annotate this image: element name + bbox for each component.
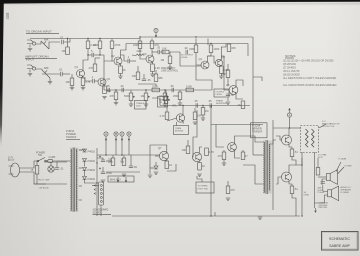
svg-text:.51: .51 [294,150,298,154]
AC plug P1 [9,163,26,177]
svg-text:NOTES:: NOTES: [285,54,296,58]
title block [322,232,359,251]
wire 16ohm col [314,152,316,208]
svg-text:100K: 100K [213,47,219,51]
plus mark C15 [99,168,101,170]
wire second rail [126,43,248,45]
wire right vertical bus [252,37,254,155]
fuse F2 vertical [35,161,39,185]
wire R1 to C1 [49,42,60,49]
wire sec tap3 [79,185,82,187]
pin arrows [94,185,96,195]
pot VOLUME 5K [160,93,170,101]
transistor Q5 [215,55,225,67]
diode D1 P4002 [83,149,96,153]
wire tb1 feed [92,185,99,187]
resistor R9 1K [119,66,126,74]
svg-text:Q2: Q2 [107,77,111,81]
capacitor C16 [129,165,138,169]
wire d1 [79,149,85,150]
junction tone 3 [164,89,165,90]
pot TREBLE 500K [124,93,135,101]
fuse F1 [46,160,55,163]
junction [87,54,88,55]
svg-text:A: A [288,113,290,117]
wire node B down [115,140,117,155]
pilot lamp L1 [48,166,54,172]
wire RB1 top [95,57,100,59]
ground pot3 [163,104,168,106]
wire Q3 out [152,51,158,53]
wire trem bus [160,105,250,107]
capacitor C10 [170,84,174,92]
wire rz3 [132,54,136,57]
resistor R31 .51 [290,149,298,157]
resistor RZ2 zigzag [312,129,315,147]
junction supply 4 [96,182,97,183]
svg-text:1M: 1M [161,58,165,62]
wire jack2 to C2 to base bus [42,73,60,75]
resistor R13 330K [189,45,198,53]
svg-text:#44 BULB: #44 BULB [39,187,50,189]
transformer T1 core [73,148,75,212]
node C [120,132,124,141]
svg-text:VR1: VR1 [150,166,156,170]
diode D4 P4002 [83,177,96,181]
resistor R1 68K (diagonal w/ arrow) [41,38,49,50]
wire pot3 top [164,90,166,93]
svg-text:100K: 100K [186,84,192,88]
node B [114,132,118,141]
wire supply bus [97,154,160,156]
svg-text:15K: 15K [231,46,236,50]
svg-text:.05: .05 [170,84,174,88]
wire bus tick [214,212,216,216]
svg-text:.01: .01 [60,167,64,171]
transformer T1 secondary winding [76,149,77,211]
wire bus to R7 [99,39,101,42]
transformer T2 secondary winding [269,144,270,190]
wire d2 [84,162,86,167]
wire [179,90,181,92]
ground pot1 [129,104,134,106]
wire r27 [123,155,125,158]
wire t2 sec taps [270,140,276,144]
svg-text:4.7K: 4.7K [85,80,91,84]
svg-text:10K: 10K [162,46,167,50]
svg-text:220K: 220K [133,43,139,47]
underline [26,33,59,35]
wire q12 coll [200,147,203,153]
svg-text:Q4: Q4 [199,57,203,61]
wire mains hot [26,161,39,168]
svg-text:1M: 1M [141,94,145,98]
ground R25 [193,122,198,124]
svg-text:470K: 470K [114,43,120,47]
wire C2 right [62,73,70,75]
resistor R17b [227,44,236,52]
resistor R16b [162,46,169,53]
svg-text:Q2: Q2 [111,54,115,58]
junction trem 2 [202,105,203,106]
capacitor C18 nonpolar [321,182,325,184]
wire sw to fuse [46,160,49,162]
ground reg [154,172,159,174]
svg-text:A: A [105,132,107,136]
wire [164,101,166,105]
resistor RB2 [103,86,107,94]
resistor R7 100K [93,41,102,49]
wire Q2b emit [104,85,106,87]
capacitor C11 [194,99,198,108]
resistor R32 .51 [290,186,298,194]
jack J2 amp/lift input [27,65,36,73]
capacitor C12 [208,99,212,108]
wire drv coll [235,136,244,144]
wire Q5 coll up [221,44,226,61]
wire R17 [227,64,229,70]
resistor R17 [222,70,230,78]
wire t2 pri mid [253,154,264,156]
node A out [287,109,291,118]
svg-text:Q3: Q3 [143,52,147,56]
wire R11 to coll [151,49,154,57]
resistor R19 [110,92,118,100]
node A [104,132,108,141]
svg-text:.02: .02 [60,36,64,40]
diode VR1 zener [150,166,159,170]
junction bus 1 [67,38,68,39]
wire osc to box [176,122,178,126]
resistor R8 470K [110,41,121,49]
wire Q4 coll [208,53,212,63]
wire fuse to xfmr [56,160,67,162]
transformer T1 core shading [70,148,78,213]
speaker SP2 [328,186,339,201]
wire node C down [121,140,123,155]
wire C3 right [94,54,100,56]
ground filter [101,180,106,182]
wire [179,100,181,104]
ground R23 [201,118,206,120]
resistor R3 1M [62,47,70,55]
resistor R14 100K [209,45,220,53]
wire [115,100,117,103]
svg-text:P4002: P4002 [88,168,96,172]
junction bus 5 [195,36,196,37]
transformer T2 primary winding [264,142,265,193]
ground R2 [48,82,53,84]
transistor Q1 [75,65,85,78]
resistor R22 [186,84,194,91]
wire Q1 emitter [82,76,84,78]
wire sp1 feed [318,176,326,178]
underline transf label [66,139,80,141]
capacitor C14 2000MFD [101,159,113,163]
wire [145,101,147,105]
leader line dc label [319,124,326,128]
junction C3/R7 [99,54,100,55]
wire t2 pri bot [243,165,264,184]
resistor RC1 [132,72,140,80]
wire enclosure top [211,124,263,126]
junction bus 4 [139,36,140,37]
underline cap can [93,214,112,216]
wire enclosure vertical [210,106,212,217]
svg-text:.05: .05 [194,99,198,103]
wire bus to R14 [207,39,209,46]
resistor R23 [201,108,208,116]
ground R6 [70,88,75,90]
svg-text:2 AMP: 2 AMP [49,156,56,159]
wire q7 emit [166,159,168,161]
wire ground/return bus [112,215,300,217]
wire C4 right [130,60,136,62]
pot TREM 5K [164,96,170,104]
ground R39 [226,198,231,200]
wire C5-R16 [169,52,172,56]
wire Q1 to Q2b [85,77,92,81]
wire jack1 to C1 [36,41,41,44]
svg-text:ALL RESISTORS 1/2 WATT UNLESS: ALL RESISTORS 1/2 WATT UNLESS MARKED [283,77,336,80]
wire trem to Q12 [192,110,197,157]
box label bass [158,97,168,108]
wire main V+ bus [30,37,253,39]
svg-text:1K: 1K [238,103,241,107]
capacitor C13 line [55,167,64,171]
svg-text:250K: 250K [152,84,158,88]
wire sec tap4 [79,199,82,201]
wire bus to R10 [139,39,141,42]
svg-text:10K: 10K [132,74,137,78]
wire bus to R8 [111,39,113,42]
wire tone bus [104,89,212,91]
wire tone feed down [103,61,105,90]
ground Q2 emitter [118,76,123,78]
wire Q2 collector up [121,44,127,59]
capacitor CC1 [142,78,151,82]
wire q9 coll [289,165,296,173]
wire sec tap2 [79,167,82,169]
wire r39 [227,181,229,186]
wire [202,115,204,118]
svg-text:1K: 1K [123,68,126,72]
junction out 1 [289,127,290,128]
transistor Q6 splitter [226,83,238,94]
svg-text:Q5: Q5 [222,55,226,59]
wire sp2 feed [323,190,328,193]
wire base bias [71,74,73,78]
wire bus to R4 [87,39,89,42]
wire C3b to base [94,80,98,82]
wire [227,98,229,101]
svg-text:220K: 220K [137,51,143,53]
wire C5 right [160,51,166,53]
wire R6 gnd [71,86,73,88]
svg-text:22K: 22K [197,114,202,118]
svg-text:408: 408 [5,12,10,20]
resistor R39 [226,186,235,194]
junction bottom 1 [210,215,211,216]
svg-text:1K: 1K [202,164,205,168]
box tremolo foot [174,126,189,135]
wire r17b [228,43,230,46]
junction trem 1 [182,105,183,106]
svg-text:.05: .05 [106,84,110,88]
wire R2 down [49,78,51,82]
wire tone to Q4 base [196,66,212,90]
wire [130,101,132,105]
junction rail2 2 [210,43,211,44]
svg-text:47K: 47K [89,66,94,70]
resistor R2 68K (diagonal w/ arrow) [42,66,50,78]
wire CC1 [143,74,145,79]
wire left rail output [272,120,274,210]
wire R8 to Q2 base [112,49,114,62]
wire C5 to Q4 [170,52,202,66]
ground Q12 [197,174,202,176]
wire R15 gnd [220,74,222,77]
resistor R30 [241,152,248,160]
wire r26 [112,155,114,158]
wire xfmr pri taps [67,160,71,162]
svg-text:330K: 330K [189,47,195,51]
svg-text:.02: .02 [184,46,188,50]
leader lines SP1 labels [336,162,344,174]
wire R9 gnd [120,74,122,77]
wire Q5 to Q6 base [221,56,229,90]
wire q7 base [155,155,159,157]
svg-text:1M: 1M [62,49,66,53]
transistor Q8 output [282,135,292,145]
wire coupling [138,84,156,86]
wire trem osc base [166,106,168,113]
capacitor C8 [106,84,110,92]
wire [223,160,225,164]
resistor R26 20K 10W [111,158,115,166]
resistor R37 [198,163,205,171]
svg-text:1M: 1M [205,109,209,113]
wire lamp taps [50,162,52,166]
wire q12 emit [199,161,201,162]
capacitor C3 5MFD [91,49,94,57]
wire out node [296,158,302,165]
wire lamp bus [44,161,67,163]
svg-text:TO TREMFOOT SW: TO TREMFOOT SW [198,186,209,191]
plus mark C14 [99,156,101,158]
wire C3 node to Q2 [100,55,112,61]
wire c16 [130,155,132,166]
junction supply 2 [121,154,122,155]
wire c18 [322,185,324,191]
wire osc coll [182,106,184,115]
wire RB1 [94,58,96,64]
terminal arrows down [117,177,127,182]
resistor RB1 [89,64,97,72]
wire r19 top [115,90,117,92]
wire q9 r32 down [292,194,296,217]
resistor R36 [182,146,190,154]
wire rect bus [96,148,98,216]
ground Q3 [150,74,155,76]
capacitor C9 [120,84,124,92]
box label output level [214,89,229,97]
wire q8 emit [289,144,292,149]
capacitor C15 2000MFD [101,171,113,175]
wire pot1 top [130,90,132,93]
wire node A [289,117,291,128]
transformer T2 core shading [263,141,272,194]
wire mains neut [26,172,47,184]
wire R7 to collector [99,49,101,56]
capacitor C3b [91,75,94,83]
junction tone 2 [145,89,146,90]
jack J1 organ input [27,40,36,48]
svg-text:500K: 500K [124,94,130,98]
pot BASS 1M [141,93,151,101]
junction out 2 [301,164,302,165]
wire jack2 to R2 [36,69,42,70]
wire Q1 collector up [83,49,88,71]
transistor Q4 [199,57,210,69]
resistor R21 [173,92,182,100]
resistor R4 2.2M [86,41,96,49]
svg-text:B: B [115,132,117,136]
wire Q6 emitter down [236,93,243,99]
wire bus to R11 [151,39,153,42]
wire RC2 [155,70,157,74]
svg-text:SCHEMATIC: SCHEMATIC [329,237,350,241]
wire strip bottom to bus [100,205,102,216]
svg-text:P4002: P4002 [88,177,96,181]
wire Q5 emitter [220,65,222,68]
junction bus 3 [99,38,100,39]
resistor R25 [193,112,201,120]
ground Q2b [102,97,107,99]
wire sp1 low [322,179,326,185]
wire [242,150,244,152]
wire Q2 out [121,55,129,61]
wire rail to node A [273,127,290,129]
svg-text:4.7K: 4.7K [209,150,215,154]
dashed box DC resistance [301,126,319,153]
wire bus stub right [253,77,262,81]
resistor R28 [165,161,172,169]
wire R17 low [227,78,229,87]
svg-text:.51: .51 [294,187,298,191]
resistor R10 220K [133,41,142,49]
svg-text:470: 470 [230,188,235,192]
diode D3 P4002 [83,168,96,172]
wire R5 gnd [82,86,84,88]
junction supply 1 [105,154,106,155]
svg-text:68K: 68K [44,66,49,70]
wire trem left [152,98,160,106]
resistor R12 2.2K [151,64,161,72]
wire reg bus down [149,160,151,174]
underline2 [25,58,57,60]
transistor Q9 output [282,172,292,182]
box label driver transf [251,123,268,138]
transistor Q2b [98,77,111,86]
svg-text:68K: 68K [44,38,49,42]
wire Q3 emitter [152,62,154,64]
resistor R33 1.5 10W [316,168,320,176]
resistor R11 47K [150,41,159,49]
wire C1 to Q1 grid [63,39,70,43]
wire c15 [102,167,104,172]
speaker SP1 [326,170,337,185]
